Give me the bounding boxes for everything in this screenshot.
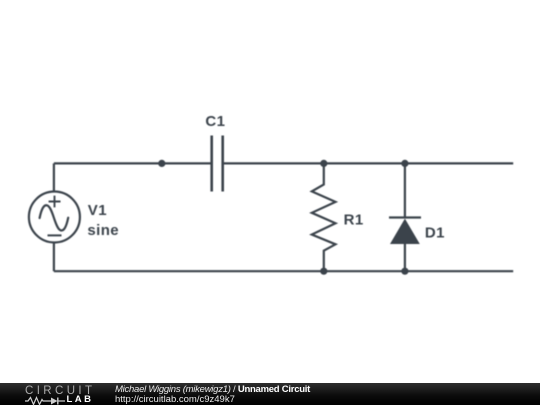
svg-text:sine: sine: [87, 222, 119, 239]
node dot top-left junction: [158, 160, 165, 167]
wire bottom segment: [54, 270, 513, 272]
wire left vertical lower: [53, 243, 55, 271]
wire top-left segment: [54, 162, 212, 164]
resistor R1: [312, 163, 336, 271]
CircuitLab logo: [25, 383, 105, 405]
diode D1: [389, 163, 421, 271]
wire top-right segment: [223, 162, 514, 164]
node dot bottom diode junction: [401, 268, 408, 275]
footer bar: [0, 383, 540, 405]
voltage source V1: [29, 192, 80, 243]
node dot top diode junction: [401, 160, 408, 167]
node dot bottom resistor junction: [320, 268, 327, 275]
svg-text:D1: D1: [425, 224, 445, 241]
svg-text:C1: C1: [205, 113, 225, 130]
svg-text:R1: R1: [344, 211, 364, 228]
node dot top resistor junction: [320, 160, 327, 167]
footer credit text: [115, 385, 310, 404]
capacitor C1: [212, 136, 223, 192]
svg-text:V1: V1: [88, 202, 107, 219]
wire left vertical upper: [53, 163, 55, 192]
